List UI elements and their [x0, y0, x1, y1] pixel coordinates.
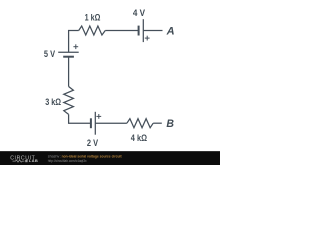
- wire V2 to node A: [143, 30, 162, 32]
- resistor R1 1k zigzag: [79, 26, 106, 35]
- battery V1 5V short plate: [63, 56, 74, 58]
- footer logo zigzag: [13, 160, 25, 162]
- wire top-left corner to resistor R1: [69, 31, 79, 53]
- plus sign V1: [73, 44, 78, 49]
- svg-text:1 kΩ: 1 kΩ: [85, 12, 101, 22]
- resistor R3 4k zigzag: [127, 119, 153, 128]
- svg-text:shashv :: shashv :: [48, 155, 62, 159]
- wire V1 to resistor R2: [68, 57, 70, 87]
- wire R2 to bottom corner to battery V3: [69, 114, 91, 123]
- battery V3 2V short plate: [90, 118, 92, 128]
- footer bar: [0, 151, 220, 165]
- plus sign V3: [96, 114, 101, 119]
- footer logo LAB: [25, 160, 27, 162]
- svg-text:B: B: [166, 118, 174, 130]
- battery V2 4V long plate: [142, 19, 144, 42]
- svg-text:A: A: [166, 26, 175, 38]
- plus sign V2: [145, 36, 150, 41]
- svg-text:http://circuitlab.com/c4aqt3x: http://circuitlab.com/c4aqt3x: [48, 159, 87, 163]
- resistor R2 3k zigzag: [64, 87, 74, 115]
- svg-text:non-ideal serial voltage sourc: non-ideal serial voltage source circuit: [62, 155, 123, 159]
- svg-text:4 V: 4 V: [133, 8, 145, 18]
- canvas background: [0, 0, 220, 165]
- svg-text:5 V: 5 V: [44, 49, 55, 59]
- svg-text:LAB: LAB: [29, 158, 38, 163]
- wire V3 to resistor R3: [95, 122, 127, 124]
- wire R1 to battery V2: [105, 30, 138, 32]
- battery V3 2V long plate: [94, 112, 96, 135]
- battery V2 4V short plate: [138, 26, 140, 36]
- svg-text:4 kΩ: 4 kΩ: [131, 133, 147, 143]
- svg-text:2 V: 2 V: [87, 138, 98, 148]
- battery V1 5V long plate: [58, 51, 78, 53]
- svg-text:3 kΩ: 3 kΩ: [45, 97, 61, 107]
- wire R3 to node B: [153, 122, 162, 124]
